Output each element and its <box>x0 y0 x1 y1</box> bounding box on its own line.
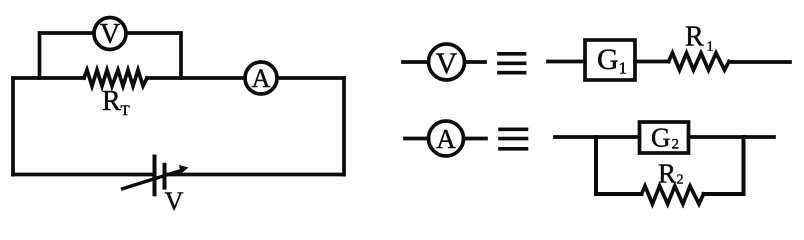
svg-text:A: A <box>436 124 456 154</box>
svg-text:V: V <box>436 47 458 80</box>
svg-text:1: 1 <box>707 40 714 55</box>
svg-text:R: R <box>685 22 704 53</box>
svg-text:G: G <box>651 123 671 153</box>
svg-text:R: R <box>658 159 676 189</box>
svg-text:1: 1 <box>619 59 628 78</box>
svg-text:G: G <box>597 43 619 76</box>
svg-text:A: A <box>252 64 271 93</box>
svg-text:T: T <box>121 103 130 119</box>
svg-text:V: V <box>165 187 184 216</box>
svg-text:R: R <box>102 86 121 117</box>
svg-text:2: 2 <box>672 137 680 153</box>
svg-text:V: V <box>100 19 120 50</box>
svg-text:2: 2 <box>677 173 684 188</box>
